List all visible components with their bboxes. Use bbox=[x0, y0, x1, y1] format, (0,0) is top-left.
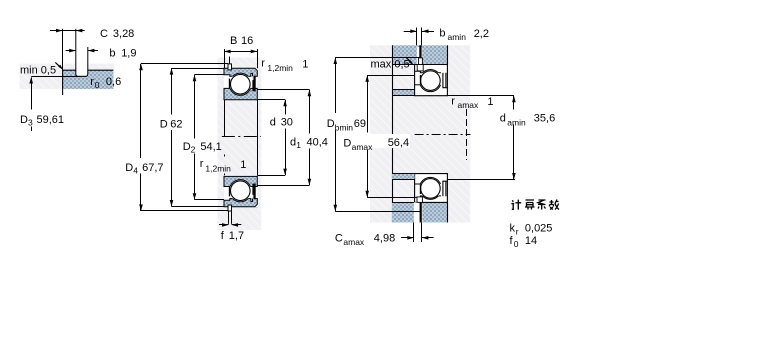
dimension D_bmin 69 bbox=[327, 57, 420, 211]
upper cage bbox=[229, 79, 231, 89]
svg-text:max 0,5: max 0,5 bbox=[371, 58, 410, 70]
svg-text:1: 1 bbox=[487, 96, 493, 108]
svg-text:14: 14 bbox=[525, 235, 537, 247]
housing lower block bbox=[392, 202, 448, 222]
snap ring upper bbox=[419, 45, 423, 64]
label min 0,5 with leader bbox=[20, 62, 63, 76]
lower cage bbox=[229, 187, 231, 197]
char 算 bbox=[525, 200, 535, 210]
lower outer ring bbox=[224, 199, 257, 207]
svg-text:min 0,5: min 0,5 bbox=[20, 65, 56, 77]
housing/shaft section edge bbox=[392, 45, 394, 222]
dimension f 1,7 bbox=[219, 211, 244, 242]
hatched background band bbox=[218, 58, 262, 231]
upper ball bbox=[231, 74, 251, 94]
svg-text:r: r bbox=[516, 227, 519, 237]
svg-text:r: r bbox=[90, 76, 94, 88]
upper ball bbox=[421, 71, 441, 91]
svg-text:bmin: bmin bbox=[335, 122, 354, 132]
svg-text:1,2min: 1,2min bbox=[267, 63, 293, 73]
svg-text:D: D bbox=[183, 141, 191, 153]
svg-text:amin: amin bbox=[448, 32, 467, 42]
dimension D 62 bbox=[160, 68, 224, 207]
hatched background band bbox=[20, 64, 114, 89]
svg-text:k: k bbox=[510, 222, 516, 234]
dimension D2 54,1 bbox=[183, 75, 224, 200]
dimension D3 59,61 bbox=[20, 77, 80, 132]
label max 0,5 with leader bbox=[371, 57, 414, 70]
upper snap ring tab bbox=[228, 57, 232, 70]
svg-text:62: 62 bbox=[170, 119, 182, 131]
upper shield outline bbox=[443, 73, 446, 88]
dimension B 16 bbox=[224, 35, 258, 68]
lower ball bbox=[231, 181, 251, 201]
lower cage bbox=[420, 184, 422, 194]
svg-text:3: 3 bbox=[28, 118, 33, 128]
svg-text:r: r bbox=[451, 96, 455, 108]
svg-text:amax: amax bbox=[352, 142, 374, 152]
dimension d1 40,4 bbox=[257, 90, 328, 186]
svg-text:2: 2 bbox=[191, 145, 196, 155]
centerline axis bbox=[415, 134, 471, 136]
outer ring snap groove notch upper bbox=[417, 65, 423, 71]
bore face lines bbox=[225, 100, 258, 176]
svg-text:16: 16 bbox=[241, 35, 253, 47]
crosshair vertical dashed bbox=[466, 109, 468, 160]
dimension b 1,9 bbox=[66, 47, 137, 59]
svg-text:D: D bbox=[327, 118, 335, 130]
shaft shoulder lower bbox=[392, 174, 415, 180]
svg-text:0: 0 bbox=[95, 80, 100, 90]
svg-text:r: r bbox=[261, 58, 265, 70]
housing upper block bbox=[392, 45, 448, 64]
svg-text:0,025: 0,025 bbox=[525, 222, 553, 234]
svg-text:amax: amax bbox=[343, 237, 365, 247]
dimension b_amin 2,2 bbox=[404, 27, 489, 45]
svg-text:4,98: 4,98 bbox=[374, 232, 395, 244]
snap ring lower bbox=[417, 197, 422, 223]
svg-text:C: C bbox=[335, 232, 343, 244]
svg-text:D: D bbox=[125, 162, 133, 174]
upper inner ring bbox=[224, 88, 257, 99]
svg-text:56,4: 56,4 bbox=[388, 137, 409, 149]
shaft shoulder upper bbox=[392, 89, 415, 95]
svg-text:D: D bbox=[20, 114, 28, 126]
dimension C 3,28 bbox=[50, 28, 134, 70]
dimension C_amax 4,98 bbox=[335, 222, 434, 246]
svg-text:1,9: 1,9 bbox=[121, 47, 136, 59]
upper raceway bbox=[419, 70, 441, 92]
bearing interior white bbox=[224, 68, 257, 207]
heading 计算系数 (calculation factors) drawn as strokes bbox=[511, 200, 559, 210]
lower raceway bbox=[419, 177, 441, 199]
snap ring groove slot bbox=[76, 29, 88, 77]
svg-text:1,7: 1,7 bbox=[229, 230, 244, 242]
svg-text:1: 1 bbox=[296, 140, 301, 150]
svg-text:0,6: 0,6 bbox=[106, 76, 121, 88]
lower shield (Z) bbox=[252, 184, 255, 199]
lower bearing outline bbox=[415, 174, 448, 203]
svg-text:4: 4 bbox=[133, 166, 138, 176]
char 计 bbox=[511, 200, 521, 210]
svg-text:30: 30 bbox=[281, 117, 293, 129]
svg-text:1: 1 bbox=[302, 58, 308, 70]
label r1,2min 1 (upper) bbox=[261, 58, 308, 73]
upper cage bbox=[420, 75, 422, 85]
upper outer ring notch redraw bbox=[417, 65, 423, 71]
svg-text:3,28: 3,28 bbox=[113, 28, 134, 40]
svg-text:D: D bbox=[343, 137, 351, 149]
upper raceway bbox=[229, 73, 251, 95]
svg-text:d: d bbox=[270, 117, 276, 129]
hatched background band bbox=[370, 45, 470, 222]
lower shield outline bbox=[443, 181, 446, 196]
svg-text:1: 1 bbox=[240, 159, 246, 171]
svg-text:B: B bbox=[230, 35, 237, 47]
lower inner ring bbox=[224, 176, 257, 186]
lower raceway bbox=[229, 180, 251, 202]
svg-text:D: D bbox=[160, 119, 168, 131]
label r_amax 1 bbox=[451, 96, 493, 111]
svg-text:amax: amax bbox=[458, 100, 480, 110]
svg-text:40,4: 40,4 bbox=[307, 137, 328, 149]
svg-text:35,6: 35,6 bbox=[534, 113, 555, 125]
upper OD right chamfer bbox=[255, 68, 258, 71]
lower ball bbox=[421, 179, 441, 199]
label r0 0,6 bbox=[90, 76, 121, 90]
dimension D_amax 56,4 bbox=[342, 75, 415, 197]
svg-text:1,2min: 1,2min bbox=[205, 164, 231, 174]
dimension d 30 bbox=[257, 100, 293, 176]
upper bearing outline bbox=[415, 65, 448, 96]
label r1,2min 1 (lower) bbox=[200, 158, 247, 173]
svg-text:d: d bbox=[500, 113, 506, 125]
svg-text:r: r bbox=[200, 158, 204, 170]
dimension D4 67,7 bbox=[125, 64, 228, 212]
lower snap ring tab bbox=[228, 205, 232, 211]
svg-text:69: 69 bbox=[354, 118, 366, 130]
char 数 bbox=[550, 200, 560, 210]
centerline axis bbox=[222, 136, 261, 138]
f_0 14 bbox=[510, 235, 538, 249]
lower OD right chamfer bbox=[255, 204, 258, 207]
dimension d_amin 35,6 bbox=[447, 96, 555, 180]
upper shield (Z) bbox=[252, 76, 255, 91]
svg-text:2,2: 2,2 bbox=[474, 28, 489, 40]
svg-text:amin: amin bbox=[507, 118, 526, 128]
svg-text:b: b bbox=[439, 27, 445, 39]
k_r 0,025 bbox=[510, 222, 553, 236]
svg-text:54,1: 54,1 bbox=[200, 141, 221, 153]
svg-text:67,7: 67,7 bbox=[142, 162, 163, 174]
svg-text:C: C bbox=[100, 28, 108, 40]
svg-text:0: 0 bbox=[514, 239, 519, 249]
svg-text:b: b bbox=[109, 47, 115, 59]
svg-text:59,61: 59,61 bbox=[37, 114, 65, 126]
upper outer ring bbox=[224, 68, 257, 76]
char 系 bbox=[538, 200, 546, 210]
ring cross-section block bbox=[63, 70, 114, 95]
